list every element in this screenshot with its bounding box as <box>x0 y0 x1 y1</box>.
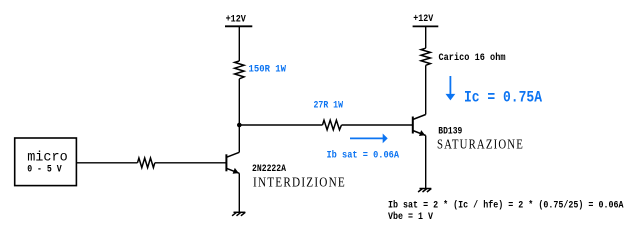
svg-text:2N2222A: 2N2222A <box>252 164 286 175</box>
svg-text:Ib sat = 0.06A: Ib sat = 0.06A <box>327 149 400 161</box>
resistor R2 27R 1W <box>323 120 342 130</box>
svg-text:micro: micro <box>27 151 68 166</box>
wire Q1 collector up <box>238 79 240 153</box>
svg-text:BD139: BD139 <box>438 126 462 137</box>
wire junction to R2 <box>239 124 322 126</box>
wire Q2 emitter down <box>425 136 427 189</box>
svg-text:Carico 16 ohm: Carico 16 ohm <box>439 52 506 64</box>
transistor Q1 2N2222A <box>226 152 239 174</box>
svg-text:Ib sat = 2 * (Ic / hfe) = 2 *: Ib sat = 2 * (Ic / hfe) = 2 * (0.75/25) … <box>388 200 624 212</box>
current arrow Ic <box>446 76 456 100</box>
wire Q2 collector up <box>425 65 427 114</box>
svg-text:SATURAZIONE: SATURAZIONE <box>437 138 524 153</box>
svg-text:+12V: +12V <box>413 14 433 25</box>
wire R2 to Q2 base <box>342 124 413 126</box>
ground Q1 <box>232 212 245 216</box>
svg-text:Vbe = 1 V: Vbe = 1 V <box>388 211 433 223</box>
svg-text:150R 1W: 150R 1W <box>249 64 287 75</box>
wire R1 to rail <box>238 26 240 61</box>
resistor R3 Carico 16 ohm <box>421 48 430 65</box>
transistor Q2 BD139 <box>413 115 426 137</box>
power rail +12V right <box>413 25 439 27</box>
wire box to Rb <box>76 162 137 164</box>
current arrow Ib <box>350 134 388 144</box>
resistor Rb <box>138 158 155 168</box>
box micro U1 <box>15 138 77 186</box>
wire Rb to Q1 base <box>155 162 227 164</box>
svg-text:0 - 5 V: 0 - 5 V <box>27 165 62 176</box>
wire R3 to rail <box>425 26 427 48</box>
svg-text:+12V: +12V <box>226 15 246 26</box>
svg-text:INTERDIZIONE: INTERDIZIONE <box>253 176 346 191</box>
ground Q2 <box>418 189 431 193</box>
power rail +12V left <box>225 25 252 27</box>
resistor R1 150R 1W <box>235 61 244 79</box>
svg-text:27R 1W: 27R 1W <box>314 100 344 111</box>
svg-text:Ic = 0.75A: Ic = 0.75A <box>464 88 543 106</box>
wire Q1 emitter down <box>238 173 240 212</box>
node junction base-collector <box>237 123 242 128</box>
